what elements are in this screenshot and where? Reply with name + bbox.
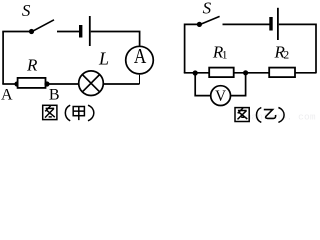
node: junction dot left of R1 (yi) (193, 70, 198, 75)
wire: battery to top-right corner and right vertical (yi) (279, 24, 316, 73)
svg-text:A: A (1, 86, 13, 103)
caption: yi character (264, 110, 276, 119)
caption: jia character (73, 107, 84, 121)
wire: voltmeter left lead (yi) (195, 73, 210, 96)
node B junction dot (44, 81, 49, 86)
svg-text:R: R (26, 55, 38, 74)
svg-text:S: S (203, 0, 212, 18)
wire: voltmeter right lead (yi) (231, 73, 246, 96)
resistor R1 body (209, 68, 234, 78)
label R1 (212, 42, 228, 61)
wire: node B to lamp (jia) (46, 83, 79, 85)
wire: battery to top-right corner (jia) (91, 32, 140, 46)
label R2 (274, 42, 290, 61)
resistor R2 body (269, 68, 295, 78)
caption: box char of 图(jia) (43, 105, 57, 119)
caption: fullwidth close paren (yi) (278, 108, 284, 123)
wire: bottom-left segment to node A (jia) (2, 83, 18, 85)
wire: switch to battery (yi) (223, 23, 270, 25)
battery (jia): short thick plate (79, 25, 82, 38)
svg-text:B: B (49, 86, 60, 103)
battery (yi): long thin plate (277, 8, 279, 40)
switch S (jia) lever (32, 20, 55, 32)
voltmeter V circle (211, 86, 231, 106)
node: junction dot between R1 and R2 (yi) (243, 70, 248, 75)
wire: lamp to bottom-right corner (jia) (103, 83, 139, 85)
wire: ammeter down to bottom wire (jia) (139, 75, 141, 84)
caption: fullwidth open paren (jia) (65, 105, 70, 121)
lamp L cross stroke 1 (83, 75, 99, 91)
svg-text:1: 1 (222, 50, 228, 62)
ammeter A (jia) circle (126, 46, 154, 74)
caption: fullwidth close paren (jia) (88, 105, 94, 121)
wire: circuit(yi) top-left corner + segment to switch (185, 24, 200, 73)
svg-text:2: 2 (283, 50, 289, 62)
wire: middle wire left part (yi) (184, 72, 209, 74)
wire: switch to battery (jia) (57, 31, 79, 33)
lamp L circle (79, 71, 104, 96)
battery (jia): long thin plate (89, 16, 91, 46)
svg-text:V: V (215, 88, 227, 105)
battery (yi): short thick plate (269, 17, 272, 31)
caption: box char of 图(yi) (235, 108, 249, 122)
node A junction dot (14, 81, 19, 86)
lamp L cross stroke 2 (83, 75, 99, 91)
wire: middle wire between R1 and R2 (yi) (234, 72, 270, 74)
svg-text:L: L (98, 48, 109, 68)
switch S (yi) pivot node (197, 22, 202, 27)
caption: fullwidth open paren (yi) (257, 108, 262, 123)
wire: middle wire right part (yi) (295, 72, 317, 74)
svg-text:S: S (22, 1, 31, 20)
svg-text:A: A (134, 46, 146, 69)
switch S (jia) pivot node (29, 29, 34, 34)
wire: circuit(jia) top-left segment to switch (2, 31, 31, 33)
wire: circuit(jia) left vertical (2, 32, 4, 85)
resistor R (jia) body (18, 78, 46, 88)
switch S (yi) lever (199, 16, 219, 24)
